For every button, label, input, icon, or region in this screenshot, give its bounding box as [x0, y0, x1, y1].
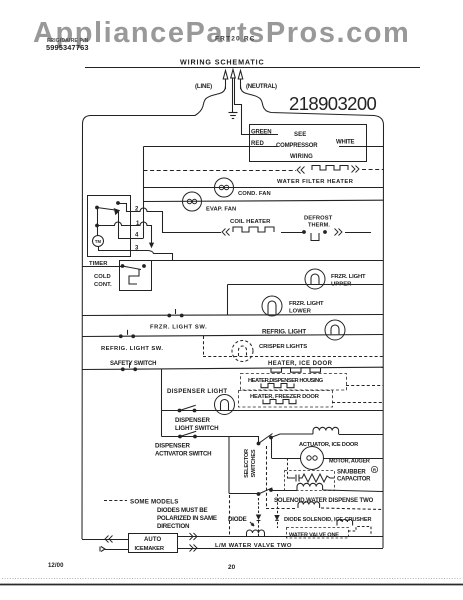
- footer dotted rule: [2, 578, 461, 580]
- connector arrows icemaker left: [109, 536, 113, 543]
- wire freezer light switch line: [82, 315, 384, 316]
- wire ice crusher dashed to rail: [321, 508, 383, 510]
- wire solenoid to rail: [323, 490, 383, 492]
- switch refrig light sw: [119, 334, 123, 338]
- timer box: [88, 196, 131, 257]
- connector arrows water filter heater right: [352, 166, 356, 173]
- wire safety to dispenser switches vertical: [161, 369, 163, 436]
- wire rail to cold control: [82, 266, 123, 268]
- svg-text:COLD: COLD: [94, 274, 111, 280]
- title underline: [85, 67, 420, 69]
- coil actuator ice door: [313, 427, 339, 434]
- timer cam blade with arrowhead: [97, 208, 114, 210]
- svg-text:DISPENSER LIGHT: DISPENSER LIGHT: [167, 388, 227, 395]
- svg-text:WHITE: WHITE: [336, 140, 355, 146]
- timer contact dot top: [116, 201, 120, 205]
- svg-text:4: 4: [135, 233, 139, 239]
- footer solid rule: [0, 584, 463, 586]
- resistor heater freezer door: [263, 400, 296, 404]
- cold control bimetal step: [129, 270, 139, 285]
- wire ground prong double lead: [232, 78, 234, 112]
- motor condenser fan: [215, 178, 234, 197]
- switch dispenser light switch: [178, 409, 182, 413]
- wire line prong to left rail: [82, 86, 226, 539]
- switch freezer light sw: [167, 314, 171, 318]
- terminal 4 wire joining feeder: [130, 238, 144, 240]
- svg-text:218903200: 218903200: [289, 93, 377, 114]
- svg-text:GREEN: GREEN: [251, 130, 271, 136]
- timer wire dotB to dotC: [97, 208, 99, 226]
- lamp freezer light lower: [262, 296, 282, 316]
- terminal 3 wire with jog to right rail: [130, 251, 384, 261]
- svg-text:DEFROST: DEFROST: [304, 216, 333, 222]
- svg-text:WATER FILTER HEATER: WATER FILTER HEATER: [277, 179, 354, 185]
- wire dispenser activator line: [162, 436, 230, 438]
- svg-text:FRZR. LIGHT: FRZR. LIGHT: [289, 301, 324, 307]
- left rail bottom to icemaker: [82, 539, 128, 541]
- svg-text:FRZR. LIGHT: FRZR. LIGHT: [331, 274, 366, 280]
- svg-text:CAPACITOR: CAPACITOR: [337, 477, 371, 483]
- svg-text:DIRECTION: DIRECTION: [157, 523, 190, 530]
- svg-text:SWITCHES: SWITCHES: [251, 449, 257, 477]
- auto icemaker box: [129, 534, 178, 553]
- svg-text:REFRIG. LIGHT: REFRIG. LIGHT: [262, 329, 306, 336]
- wire water filter heater dashed left: [144, 170, 297, 172]
- timer wire motor leads: [98, 226, 131, 251]
- svg-text:SNUBBER: SNUBBER: [337, 470, 366, 476]
- svg-text:12/00: 12/00: [48, 563, 64, 569]
- wire coil heater to defrost: [281, 232, 304, 234]
- svg-text:DIODES MUST BE: DIODES MUST BE: [157, 507, 208, 514]
- svg-text:SELECTOR: SELECTOR: [244, 449, 250, 478]
- svg-text:DIODE: DIODE: [228, 516, 247, 523]
- defrost thermostat contacts: [302, 230, 306, 234]
- motor evaporator fan: [183, 192, 202, 211]
- dashed vertical some models feed: [266, 446, 268, 508]
- timer wire terminal 2 inside: [118, 204, 130, 212]
- switch safety switch: [121, 367, 125, 371]
- wire frzr upper light line: [228, 284, 384, 286]
- icemaker lower left stub: [105, 549, 128, 551]
- svg-text:REFRIG. LIGHT SW.: REFRIG. LIGHT SW.: [101, 346, 163, 352]
- svg-text:SAFETY SWITCH: SAFETY SWITCH: [110, 361, 156, 367]
- svg-text:SOME MODELS: SOME MODELS: [130, 499, 179, 506]
- svg-text:WIRING: WIRING: [290, 154, 313, 160]
- wire to auger motor: [271, 438, 273, 459]
- timer contact dot lower-left: [95, 224, 99, 228]
- svg-text:ICEMAKER: ICEMAKER: [135, 546, 165, 552]
- svg-text:CONT.: CONT.: [94, 282, 112, 288]
- terminal 2 wire hump over feeder to coil heater: [130, 208, 221, 233]
- lamp crisper lights dashed: [232, 341, 253, 362]
- svg-text:(LINE): (LINE): [195, 84, 212, 90]
- connector arrows coil heater: [226, 229, 230, 236]
- svg-text:HEATER, ICE DOOR: HEATER, ICE DOOR: [268, 361, 333, 367]
- wire heater freezer door dashed to rail: [332, 402, 383, 404]
- wire defrost tail: [345, 232, 371, 234]
- wire neutral prong to right rail: [241, 86, 384, 548]
- wire icemaker top line to rail: [177, 536, 383, 538]
- terminal 1 arrowhead to node: [150, 243, 154, 247]
- legend some models dash sample: [104, 500, 127, 502]
- plug arrow NEUTRAL prong: [238, 71, 243, 90]
- coil water valve one: [337, 519, 353, 525]
- wire cold control to t3 node: [151, 260, 172, 262]
- svg-text:MOTOR, AUGER: MOTOR, AUGER: [329, 459, 370, 465]
- cold control contacts: [121, 264, 125, 268]
- svg-text:SOLENOID,WATER DISPENSE TWO: SOLENOID,WATER DISPENSE TWO: [274, 498, 374, 504]
- timer hump on terminal1 wire over arm: [97, 222, 130, 226]
- lamp freezer light upper: [305, 269, 325, 289]
- svg-text:5995347763: 5995347763: [46, 43, 89, 52]
- coil solenoid water dispense two: [297, 483, 323, 490]
- lamp dispenser light: [215, 395, 235, 415]
- lamp refrig light: [325, 320, 345, 340]
- coil water valve two on icemaker line: [247, 530, 265, 537]
- feeder vertical to fans and red lead: [143, 147, 145, 239]
- plug arrow LINE prong: [223, 71, 228, 90]
- heater freezer door dashed box: [239, 391, 333, 408]
- svg-text:AUTO: AUTO: [144, 537, 162, 543]
- timer contact dot left: [95, 206, 99, 210]
- snubber capacitor symbol: [287, 475, 299, 482]
- svg-text:FRZR. LIGHT SW.: FRZR. LIGHT SW.: [150, 325, 207, 331]
- cold control box: [120, 261, 152, 291]
- resistor coil heater: [233, 227, 274, 232]
- ground symbol: [229, 112, 238, 114]
- resistor heater dispenser housing: [261, 384, 294, 388]
- wire red lead: [144, 146, 279, 148]
- svg-text:20: 20: [228, 564, 236, 571]
- diode 1: [258, 498, 260, 514]
- terminal 1 wire hump over feeder: [130, 222, 152, 244]
- svg-text:L/M WATER VALVE TWO: L/M WATER VALVE TWO: [215, 543, 292, 549]
- svg-text:POLARIZED IN SAME: POLARIZED IN SAME: [157, 515, 217, 522]
- compressor box SEE COMPRESSOR WIRING: [250, 125, 367, 162]
- selector contact 1: [257, 442, 261, 446]
- svg-text:ACTIVATOR SWITCH: ACTIVATOR SWITCH: [155, 451, 211, 458]
- wire actuator to rail: [339, 434, 383, 436]
- dashed bracket water valve one to rail: [348, 527, 371, 535]
- resistor water filter heater: [312, 166, 348, 171]
- svg-text:COND. FAN: COND. FAN: [238, 191, 271, 197]
- wire refrig light line: [82, 335, 384, 337]
- snubber capacitor dashed box: [285, 471, 335, 491]
- svg-text:DIODE SOLENOID, ICE CRUSHER: DIODE SOLENOID, ICE CRUSHER: [284, 517, 371, 523]
- wire safety switch line: [82, 367, 384, 369]
- wire heater dispenser housing dashed to rail: [346, 385, 383, 387]
- svg-text:1: 1: [136, 221, 140, 227]
- selector switches box: [229, 437, 259, 494]
- wire water filter heater dashed right: [362, 169, 383, 171]
- wire dispenser light line: [162, 410, 384, 412]
- selector contact 2: [257, 492, 261, 496]
- wire condenser fan line: [144, 187, 384, 189]
- wire evaporator fan line: [144, 200, 384, 201]
- wire icemaker bottom line to rail: [177, 548, 383, 550]
- connector arrows icemaker bottom: [190, 545, 194, 552]
- svg-text:THERM.: THERM.: [308, 223, 330, 229]
- wire frzr upper light branch vertical: [227, 285, 229, 316]
- svg-text:COIL HEATER: COIL HEATER: [230, 219, 271, 225]
- wire white lead to right rail: [339, 146, 383, 148]
- svg-text:COMPRESSOR: COMPRESSOR: [276, 143, 318, 149]
- connector arrows water filter heater left: [301, 167, 305, 174]
- svg-text:EVAP. FAN: EVAP. FAN: [206, 207, 236, 213]
- svg-text:SEE: SEE: [294, 132, 306, 138]
- heater dispenser housing dashed box: [241, 374, 347, 391]
- wire crisper branch dashed: [203, 336, 205, 356]
- svg-text:WIRING SCHEMATIC: WIRING SCHEMATIC: [180, 58, 265, 67]
- wire actuator line: [271, 434, 313, 438]
- plug arrow ground prong: [231, 70, 236, 79]
- coil diode solenoid ice crusher: [298, 502, 320, 508]
- wire ground tee to compressor green: [234, 105, 278, 135]
- wire ice crusher dashed line: [266, 508, 297, 510]
- svg-text:CRISPER LIGHTS: CRISPER LIGHTS: [259, 344, 307, 350]
- svg-text:LIGHT SWITCH: LIGHT SWITCH: [175, 425, 219, 432]
- switch dispenser activator switch: [178, 435, 182, 439]
- dashed vertical selector to icemaker line: [229, 495, 231, 536]
- timer wire arm to terminal 4: [119, 212, 131, 239]
- svg-text:TM: TM: [95, 239, 102, 244]
- motor auger: [301, 447, 324, 470]
- defrost therm bracket: [311, 233, 319, 241]
- svg-text:LOWER: LOWER: [289, 309, 312, 315]
- registered mark: [371, 466, 377, 472]
- svg-text:(NEUTRAL): (NEUTRAL): [246, 84, 277, 90]
- resistor heater ice door: [271, 368, 321, 373]
- svg-text:DISPENSER: DISPENSER: [155, 443, 190, 450]
- water valve one dashed box: [287, 528, 349, 539]
- svg-text:DISPENSER: DISPENSER: [175, 417, 210, 424]
- snubber resistor zigzag: [299, 474, 334, 482]
- timer motor TM: [93, 236, 104, 247]
- connector arrows defrost right: [335, 229, 339, 236]
- svg-text:AppliancePartsPros.com: AppliancePartsPros.com: [33, 17, 410, 49]
- wire solenoid water dispense line: [271, 490, 297, 492]
- svg-text:FRT20 RC: FRT20 RC: [215, 36, 256, 43]
- snubber wire vertical: [287, 458, 289, 478]
- connector arrows icemaker top: [190, 533, 194, 540]
- svg-text:WATER VALVE ONE: WATER VALVE ONE: [289, 533, 339, 539]
- diode 2: [277, 494, 279, 515]
- wire auger motor to rail: [324, 458, 384, 460]
- svg-text:UPPER: UPPER: [331, 282, 352, 288]
